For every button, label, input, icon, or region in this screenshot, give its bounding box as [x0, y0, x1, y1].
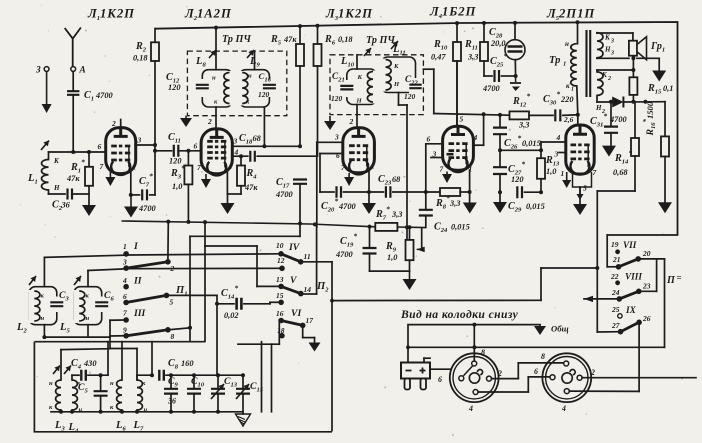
resistor R14	[597, 102, 639, 191]
svg-text:1: 1	[563, 61, 566, 68]
wire battery plus stub	[424, 358, 450, 369]
wire C19 R9 bottom	[370, 270, 410, 272]
svg-text:15: 15	[276, 291, 284, 300]
node junction bus/R10 top	[455, 21, 459, 25]
wire C17 to switch III rail	[188, 236, 300, 341]
tube U2 (Л2 1А2П)	[194, 129, 239, 175]
resistor R13	[537, 150, 560, 192]
filament bracket L5	[573, 172, 592, 204]
label P=	[666, 273, 682, 287]
switch section VIII	[610, 272, 651, 302]
box chassis frame	[34, 342, 332, 432]
svg-text:120: 120	[404, 92, 415, 101]
svg-text:R16*1500: R16*1500	[642, 101, 657, 136]
node junction bus/R5 top	[298, 24, 302, 28]
svg-text:0,02: 0,02	[224, 311, 239, 320]
node junction bus/Tr1 top	[576, 20, 580, 24]
wire battery minus riser	[407, 325, 409, 363]
ground under R9	[403, 271, 417, 290]
wire L8 bottom to tube L2 grid	[207, 107, 216, 129]
node junction bus/R11 top	[482, 21, 486, 25]
svg-text:4700: 4700	[95, 91, 114, 100]
capacitor C2	[49, 189, 90, 213]
svg-text:36: 36	[61, 201, 71, 210]
svg-text:К: К	[393, 63, 399, 70]
wire L4 pin6 to C24	[426, 144, 443, 210]
resistor R11	[464, 23, 488, 76]
wire N2 diode line	[595, 95, 612, 115]
switch section II	[122, 276, 174, 307]
svg-text:Тр ПЧ: Тр ПЧ	[222, 34, 251, 45]
wire L1 plate pin3 to R2	[136, 143, 157, 147]
wire socket X1 pin4 to X2 pin6	[478, 377, 550, 392]
svg-text:4700: 4700	[338, 202, 357, 211]
socket X1 body	[450, 353, 499, 402]
svg-text:3,3: 3,3	[391, 210, 402, 219]
wire L9 bottom to plate node	[262, 107, 266, 148]
wire grid cap to tube L5 top	[577, 115, 579, 126]
wire riser C8	[151, 342, 153, 376]
switch section I	[122, 241, 175, 273]
transformer block Tr-IF2 dashed box	[330, 55, 423, 115]
label R16 value	[642, 101, 657, 136]
svg-text:6: 6	[123, 292, 127, 301]
wire socket X2 pin4 right	[569, 390, 639, 392]
svg-text:0,68: 0,68	[613, 168, 628, 177]
coil of L8	[224, 71, 237, 106]
label view text	[400, 308, 519, 321]
label tube L1 type	[87, 7, 135, 23]
svg-text:2,6: 2,6	[563, 115, 574, 124]
speaker Gr1	[629, 37, 665, 60]
resistor R9	[385, 225, 414, 271]
wire L5 top	[87, 271, 89, 287]
capacitor C14	[215, 284, 279, 321]
capacitor C27	[493, 148, 525, 202]
svg-text:Н: Н	[604, 46, 611, 54]
svg-text:н: н	[41, 315, 45, 322]
svg-text:220: 220	[560, 95, 574, 104]
svg-text:3,3: 3,3	[518, 121, 529, 130]
inductor L9 with capacitor C16	[236, 50, 276, 107]
svg-text:6: 6	[194, 142, 198, 151]
svg-text:2: 2	[590, 368, 595, 377]
svg-text:2: 2	[349, 117, 354, 126]
wire N3 to speaker bottom	[597, 56, 635, 60]
svg-text:4700: 4700	[482, 84, 501, 93]
svg-text:3: 3	[137, 136, 142, 145]
wire L2 plate pin3	[232, 144, 302, 148]
svg-text:0,47: 0,47	[431, 53, 446, 62]
wire L5 pin4	[539, 142, 566, 152]
inductor L8 with capacitor C12	[195, 50, 232, 107]
inductor L7	[133, 380, 148, 433]
svg-text:4: 4	[122, 276, 127, 285]
svg-text:3: 3	[122, 258, 127, 267]
node junction bus/R6 top	[316, 24, 320, 28]
ground under C31	[602, 146, 616, 157]
svg-text:Тр ПЧ: Тр ПЧ	[366, 35, 395, 46]
wire riser L6	[121, 342, 123, 380]
wire contact17 to ground	[303, 325, 315, 342]
svg-text:4700: 4700	[335, 250, 354, 259]
wire contact1 to contact10	[128, 254, 279, 255]
wire contact8 to rail	[168, 328, 190, 330]
wire contact9 line	[110, 335, 124, 337]
svg-text:68: 68	[392, 175, 401, 184]
svg-text:VII: VII	[623, 240, 637, 250]
ground under contact17	[309, 343, 321, 352]
svg-text:2: 2	[497, 369, 502, 378]
svg-text:н: н	[49, 380, 53, 387]
wire L5 bottom	[87, 325, 89, 337]
inductor L10 with capacitor C21	[340, 48, 380, 105]
svg-text:1: 1	[371, 162, 375, 171]
resistor R7	[375, 205, 402, 231]
wire section to battery area	[330, 268, 597, 303]
resistor R12	[510, 92, 554, 130]
capacitor C24	[419, 210, 470, 234]
wire L3 pin6 to C20	[320, 154, 343, 193]
svg-text:Н: Н	[356, 98, 363, 105]
tube U1 (Л1 1К2П)	[106, 119, 136, 175]
node junction bus/C28 top	[513, 21, 517, 25]
socket X1 pins	[438, 348, 502, 413]
capacitor C7	[129, 172, 157, 214]
svg-text:6: 6	[438, 375, 442, 384]
svg-text:1: 1	[571, 87, 574, 93]
cathode arrow L2 pin7	[201, 174, 211, 188]
svg-text:4700: 4700	[138, 204, 157, 213]
svg-text:4: 4	[473, 133, 478, 142]
capacitor C18	[239, 133, 317, 162]
svg-text:10: 10	[276, 241, 284, 250]
wire ground bus in box	[51, 410, 243, 414]
label tube L3 type	[325, 7, 373, 23]
label Tr IF2	[366, 35, 395, 46]
transformer Tr1 secondary winding K3	[597, 33, 614, 58]
svg-text:1: 1	[570, 45, 573, 51]
capacitor C1	[67, 71, 114, 152]
svg-text:Вид на колодки снизу: Вид на колодки снизу	[400, 308, 519, 321]
cathode arrow L3 pin7	[344, 173, 354, 186]
svg-text:2: 2	[607, 76, 611, 82]
svg-text:1,0: 1,0	[546, 167, 557, 176]
tube U3 (Л3 1К2П)	[334, 128, 375, 175]
svg-text:н: н	[212, 75, 216, 82]
svg-text:З: З	[35, 65, 41, 75]
svg-text:IX: IX	[625, 305, 637, 315]
svg-text:1: 1	[561, 169, 565, 178]
wire box2 to R12 grid line	[423, 69, 509, 115]
svg-text:к: к	[566, 82, 570, 90]
label C6	[104, 290, 114, 303]
resistor R10	[431, 23, 461, 126]
svg-text:5: 5	[460, 115, 464, 124]
wire L9 top stub	[254, 51, 256, 70]
svg-text:36: 36	[167, 397, 176, 406]
wire L2 bottom	[42, 325, 46, 339]
wire L2coil to contact1	[44, 255, 123, 257]
switch section VII	[611, 240, 651, 270]
cathode arrow L4 pin7	[442, 172, 452, 184]
wire obsh line	[410, 323, 541, 327]
svg-text:0,015: 0,015	[526, 202, 545, 211]
svg-text:0,1: 0,1	[663, 84, 673, 93]
svg-text:5: 5	[170, 298, 174, 307]
svg-text:1А2П: 1А2П	[197, 7, 232, 21]
svg-text:8: 8	[481, 348, 485, 357]
svg-text:3,3: 3,3	[467, 53, 478, 62]
svg-text:23: 23	[642, 282, 651, 291]
inductor L5 with capacitor C6	[59, 276, 108, 335]
ground hatched under C15	[236, 414, 251, 426]
ground under R16	[658, 202, 672, 213]
svg-text:7: 7	[593, 168, 597, 177]
capacitor C10	[187, 373, 205, 412]
wire contact3 to contact12	[128, 267, 280, 269]
node junction bus/L8 top	[214, 26, 218, 30]
wire L3 top	[60, 350, 62, 380]
svg-text:11: 11	[304, 252, 311, 261]
label tube L2 type	[184, 7, 232, 23]
wire contact2 riser	[167, 222, 169, 262]
svg-text:3: 3	[554, 150, 559, 159]
resistor R16	[661, 102, 669, 203]
ground under R1	[82, 205, 96, 216]
ground under L3	[362, 203, 376, 214]
label C22	[404, 74, 418, 101]
tube U5 (Л5 2П1П)	[554, 125, 597, 193]
svg-text:8: 8	[171, 332, 175, 341]
svg-text:П: П	[666, 275, 676, 286]
wire contact26 down to socket	[638, 322, 640, 391]
svg-text:20,0: 20,0	[490, 39, 506, 48]
svg-text:7: 7	[440, 165, 444, 174]
svg-text:1К2П: 1К2П	[100, 7, 135, 21]
wire K3 to speaker	[597, 33, 633, 41]
svg-text:27: 27	[611, 321, 620, 330]
wire contact11 to P2 rail	[301, 262, 332, 431]
wire risers right in box	[238, 320, 279, 412]
svg-text:III: III	[133, 308, 147, 319]
svg-text:3: 3	[610, 51, 614, 57]
label pins L1	[98, 136, 142, 172]
capacitor C29	[508, 186, 545, 213]
capacitor C17	[275, 177, 307, 236]
label C16	[258, 71, 272, 99]
tube U4 (Л4 1Б2П)	[427, 61, 478, 174]
battery connector	[401, 363, 430, 390]
svg-text:430: 430	[83, 359, 97, 368]
svg-text:4: 4	[561, 404, 566, 413]
svg-text:12: 12	[277, 256, 285, 265]
svg-text:VIII: VIII	[625, 272, 642, 282]
wire R14 rail down	[595, 191, 599, 332]
capacitor C20	[321, 186, 369, 213]
transformer Tr1 primary winding	[565, 22, 580, 117]
capacitor C5	[78, 373, 108, 412]
label P1	[175, 285, 188, 298]
wire L10 top stub	[356, 55, 358, 69]
svg-text:5: 5	[583, 184, 587, 193]
potentiometer arrow R9	[417, 228, 425, 252]
label tube L4 type	[429, 5, 477, 21]
resistor R3	[170, 151, 192, 221]
svg-text:Н: Н	[53, 184, 60, 192]
wire rail205 down	[204, 246, 206, 342]
wire rail349	[61, 348, 110, 351]
wire under L2 L5	[44, 336, 110, 338]
label Tr IF1	[222, 34, 251, 45]
svg-text:13: 13	[276, 275, 284, 284]
capacitor C25	[482, 52, 518, 94]
transformer Tr1 secondary winding K2	[597, 71, 611, 95]
transformer block Tr-IF1 dashed box	[187, 51, 286, 116]
inductor L4	[64, 366, 83, 435]
wire socket X1 pin8 riser	[473, 325, 475, 361]
wire L3 pin3 to C18 node	[317, 142, 343, 156]
svg-text:1: 1	[229, 162, 233, 171]
svg-text:A: A	[79, 65, 86, 75]
inductor L2 with capacitor C3	[16, 276, 63, 335]
svg-text:21: 21	[612, 255, 620, 264]
ground under L4/R8	[463, 203, 477, 214]
wire contact23 up	[639, 259, 657, 291]
ground Obshch	[534, 324, 569, 336]
svg-text:7: 7	[341, 163, 345, 172]
ground under C27	[493, 202, 507, 213]
svg-text:6: 6	[427, 135, 431, 144]
svg-text:н: н	[565, 40, 569, 48]
wire L2 pin4 to C18	[232, 155, 247, 157]
svg-text:16: 16	[276, 309, 284, 318]
svg-text:26: 26	[642, 314, 651, 323]
resistor R6	[314, 26, 354, 156]
ground under box1	[180, 116, 192, 127]
wire K2 top to R15	[597, 68, 635, 72]
svg-text:IV: IV	[288, 242, 301, 253]
wire L7 to C8	[137, 375, 152, 380]
svg-text:24: 24	[611, 288, 620, 297]
wire pin3 node to C11 row	[153, 149, 172, 153]
svg-text:120: 120	[168, 83, 181, 92]
wire L3 pin1 to ground	[367, 171, 371, 203]
svg-text:3: 3	[233, 137, 238, 146]
label C3	[59, 290, 69, 303]
wire contact27 rail	[597, 331, 620, 333]
svg-text:47к: 47к	[244, 183, 258, 192]
svg-text:6: 6	[336, 151, 340, 160]
wire C26 riser	[498, 113, 502, 128]
wire right border to switch	[607, 235, 677, 267]
inductor L11 with capacitor C22	[380, 41, 423, 95]
resistor R1	[66, 152, 93, 205]
socket X2 pins	[534, 352, 595, 413]
inductor L6	[110, 380, 126, 433]
svg-text:68: 68	[253, 134, 262, 143]
wire L2 top	[43, 257, 45, 286]
capacitor C26	[493, 128, 541, 168]
svg-text:14: 14	[304, 285, 312, 294]
svg-text:0,015: 0,015	[451, 223, 470, 232]
svg-text:2: 2	[111, 119, 116, 128]
capacitor C30	[543, 90, 578, 125]
svg-text:25: 25	[611, 305, 620, 314]
svg-text:1,0: 1,0	[387, 253, 398, 262]
svg-text:Н: Н	[595, 104, 602, 112]
wire L10 bottom to tube L3 grid	[349, 105, 358, 128]
svg-text:н: н	[248, 73, 252, 80]
wire L11 bottom out of box	[399, 93, 410, 240]
label P2	[316, 281, 329, 294]
svg-text:6: 6	[98, 142, 102, 151]
ground under L2	[221, 203, 235, 214]
svg-text:1: 1	[133, 163, 137, 172]
resistor R8	[435, 188, 470, 211]
capacitor C12 label	[166, 72, 181, 92]
wire riser C4	[107, 342, 109, 376]
svg-text:VI: VI	[291, 308, 302, 319]
svg-text:120: 120	[511, 175, 524, 184]
wire contact7 line	[110, 320, 124, 337]
inductor L1	[27, 141, 60, 195]
resistor R15	[629, 58, 673, 101]
svg-text:н: н	[86, 315, 90, 322]
wire contact5 to C14 rail	[167, 295, 218, 375]
svg-text:0,015: 0,015	[522, 139, 541, 148]
resistor R4	[237, 156, 258, 194]
svg-text:2: 2	[170, 264, 175, 273]
diode D1	[612, 97, 665, 108]
svg-text:1: 1	[123, 242, 127, 251]
switch section IX	[611, 305, 651, 335]
ground under speaker	[652, 71, 666, 82]
electrolytic capacitor C28	[489, 23, 525, 76]
svg-text:120: 120	[258, 90, 269, 99]
wire socket X1 pin2 to X2 pin8	[492, 363, 564, 379]
svg-text:Н: Н	[393, 81, 400, 88]
antenna W1	[65, 28, 86, 75]
svg-text:8: 8	[541, 352, 545, 361]
capacitor C11	[168, 132, 201, 166]
svg-text:7: 7	[123, 309, 127, 318]
capacitor C19	[335, 227, 377, 272]
svg-text:0,18: 0,18	[338, 35, 353, 44]
capacitor C23	[369, 174, 440, 198]
transformer Tr1 core	[549, 31, 590, 96]
wire socket X2 pin2 right	[582, 377, 696, 379]
inductor L3	[49, 366, 65, 433]
wire contact24 arrow left	[584, 296, 619, 302]
switch section III	[123, 308, 175, 341]
svg-text:1,0: 1,0	[172, 182, 183, 191]
wire contact20 to P rail	[638, 259, 664, 347]
wire R13 top	[500, 149, 541, 151]
svg-text:4: 4	[556, 133, 561, 142]
cathode arrow L5 pin1	[562, 172, 571, 188]
svg-text:4: 4	[468, 404, 473, 413]
switch section VI	[276, 291, 313, 339]
svg-text:47к: 47к	[66, 174, 80, 183]
wire L4 pin1 to ground	[468, 170, 472, 203]
svg-text:7: 7	[100, 162, 104, 171]
wire rail 246	[205, 222, 279, 286]
label tube L5 type	[546, 7, 595, 23]
capacitor C9	[164, 373, 178, 412]
svg-text:160: 160	[181, 359, 194, 368]
wire speaker to ground	[637, 58, 659, 70]
